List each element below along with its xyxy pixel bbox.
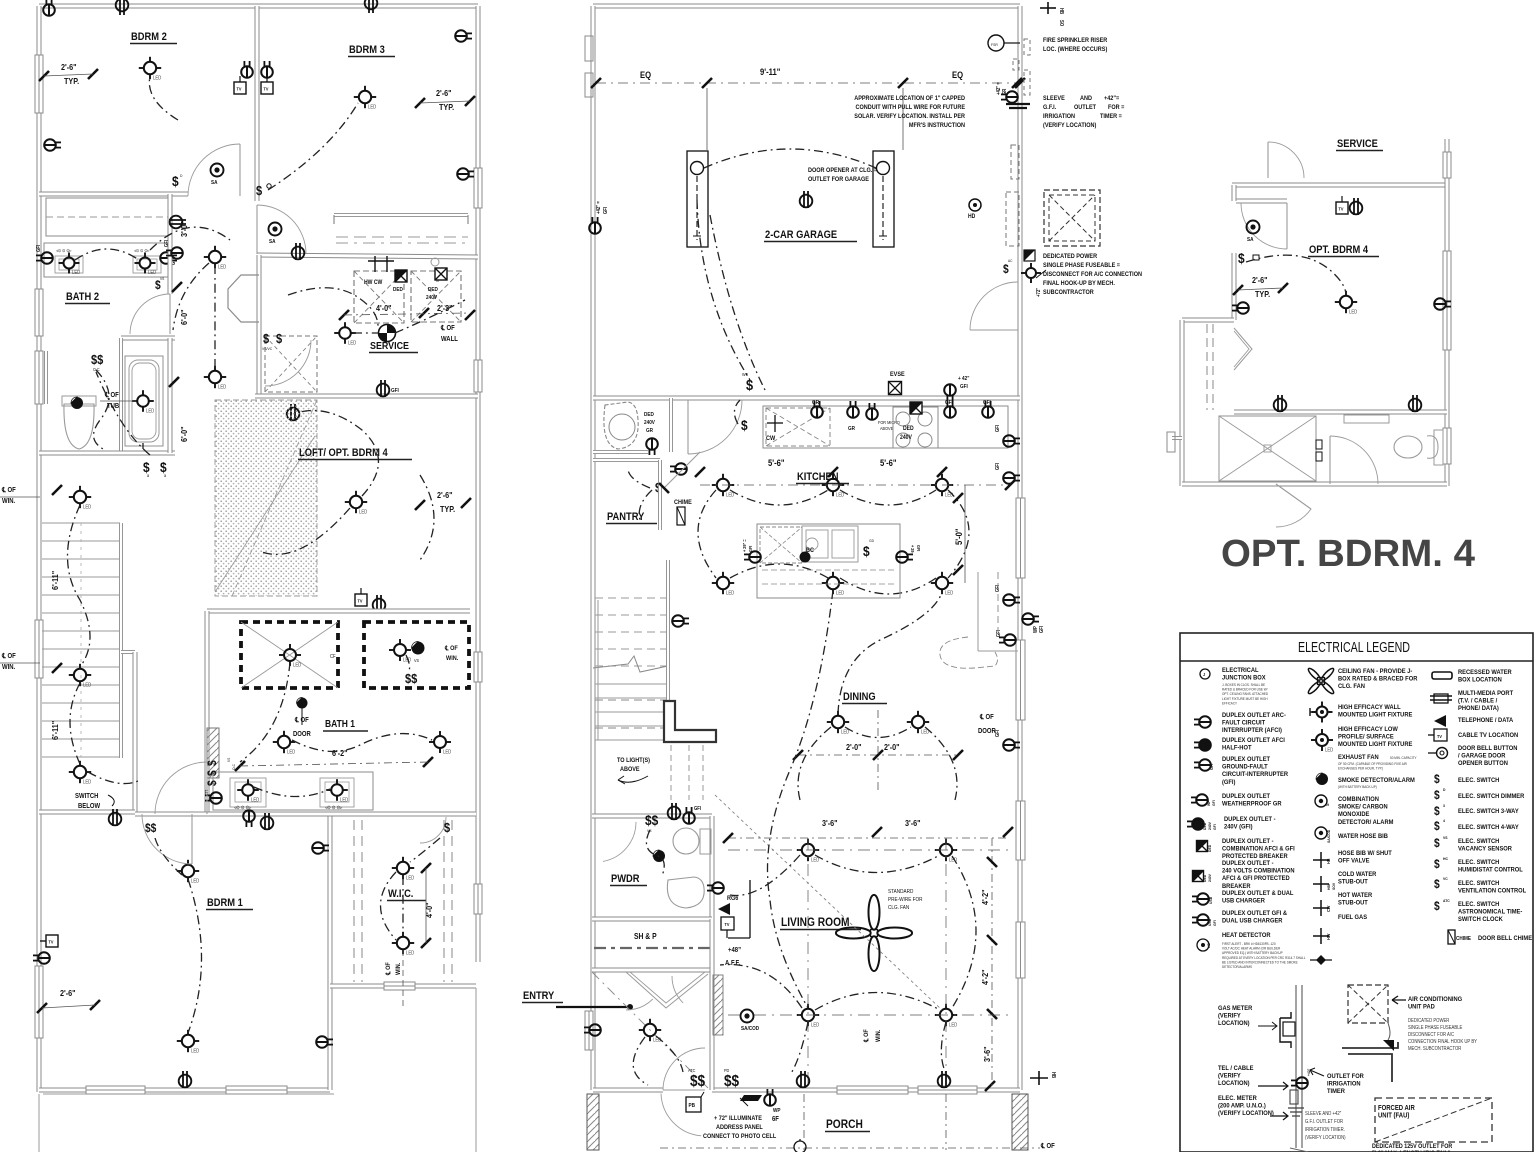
svg-text:LED: LED	[945, 590, 954, 595]
svg-text:TIMER: TIMER	[1327, 1088, 1345, 1096]
front door gap and arc	[663, 1048, 705, 1090]
svg-text:BDRM 2: BDRM 2	[131, 31, 167, 43]
recessed LED light at 440,742	[434, 736, 446, 748]
duplex outlet at 216,798	[205, 792, 222, 804]
stairs	[42, 522, 120, 524]
svg-text:EFFICACY: EFFICACY	[1222, 701, 1238, 705]
svg-text:CLG. FAN: CLG. FAN	[888, 905, 910, 911]
svg-text:2'-6": 2'-6"	[437, 490, 453, 500]
recessed LED light at 188,871	[182, 865, 194, 877]
svg-text:2-CAR GARAGE: 2-CAR GARAGE	[765, 229, 837, 241]
smoke alarm at 217,170	[211, 164, 224, 177]
svg-text:FORCED AIR: FORCED AIR	[1378, 1105, 1415, 1113]
svg-text:5'-0": 5'-0"	[953, 528, 964, 545]
svg-text:GFI: GFI	[983, 400, 991, 406]
ceiling fan at 874,933	[877, 928, 912, 939]
tub room left wall jog	[44, 351, 48, 404]
svg-text:℄ OF: ℄ OF	[385, 962, 393, 976]
recessed LED light at 215,257	[209, 251, 221, 263]
garage door track right	[873, 151, 894, 247]
tr left wall upper	[1232, 185, 1237, 201]
svg-text:$$: $$	[405, 671, 418, 686]
duplex outlet at 817,412	[811, 401, 823, 418]
recessed LED light at 356,502	[350, 496, 362, 508]
svg-text:OUTLET FOR GARAGE: OUTLET FOR GARAGE	[808, 177, 869, 183]
legend door bell button	[1437, 748, 1448, 759]
window at 1443,251	[1443, 251, 1451, 350]
svg-text:CONDUIT WITH PULL WIRE FOR FUT: CONDUIT WITH PULL WIRE FOR FUTURE	[856, 105, 965, 111]
wic door arc	[420, 817, 446, 843]
svg-text:RG6: RG6	[727, 896, 739, 902]
surface light at 185,1080	[179, 1071, 192, 1088]
pwdr toilet	[673, 828, 699, 854]
pantry door leaf	[664, 452, 700, 488]
svg-text:HD: HD	[1207, 943, 1211, 948]
svg-text:2'-0": 2'-0"	[884, 742, 900, 752]
range	[893, 407, 938, 448]
svg-text:INTERRUPTER (AFCI): INTERRUPTER (AFCI)	[1222, 727, 1282, 735]
bdrm2 hall wires	[150, 227, 230, 250]
svg-text:ATC: ATC	[1443, 899, 1450, 903]
duplex outlet at 950,412	[944, 401, 956, 418]
tr bath door	[1330, 436, 1378, 484]
svg-text:WIN.: WIN.	[396, 962, 402, 975]
svg-text:◃⊙ ⊙ ⊙▹: ◃⊙ ⊙ ⊙▹	[134, 248, 150, 253]
svg-text:ELEC. SWITCH: ELEC. SWITCH	[1458, 859, 1500, 867]
recessed LED light at 248,790	[242, 784, 254, 796]
svg-text:LED: LED	[340, 797, 349, 802]
svg-text:WALL: WALL	[441, 336, 458, 344]
garage wires	[704, 149, 876, 168]
smoke alarm at 275,229	[269, 223, 282, 236]
service bottom wall upper	[1232, 183, 1447, 188]
duplex outlet at 461,36	[455, 30, 472, 42]
svg-text:UNIT (FAU): UNIT (FAU)	[1378, 1112, 1409, 1120]
service top door arc	[1268, 142, 1304, 178]
svg-text:G.F.I.: G.F.I.	[1043, 105, 1056, 111]
svg-text:LED: LED	[83, 682, 92, 687]
svg-text:TEL / CABLE: TEL / CABLE	[1218, 1065, 1253, 1073]
svg-text:TV: TV	[1339, 206, 1344, 211]
svg-text:DUPLEX OUTLET -: DUPLEX OUTLET -	[1222, 838, 1274, 846]
bdrm3 door + hall top wall	[257, 255, 478, 257]
svg-text:GD: GD	[869, 539, 874, 543]
duplex outlet at 1009,478	[1003, 472, 1020, 484]
svg-text:STUB-OUT: STUB-OUT	[1338, 899, 1368, 907]
special outlet box at 441,274	[435, 268, 447, 280]
svg-text:CLG. FAN: CLG. FAN	[1338, 683, 1365, 691]
window at 1443,152	[1443, 152, 1451, 178]
svg-text:UNIT PAD: UNIT PAD	[1408, 1003, 1435, 1011]
recessed LED light at 1322,712	[1317, 707, 1328, 718]
svg-text:EQ: EQ	[952, 69, 964, 80]
svg-text:$$: $$	[91, 352, 104, 367]
svg-text:TV: TV	[1437, 734, 1442, 739]
entry bottom wall	[593, 1088, 663, 1093]
svg-text:DUPLEX OUTLET -: DUPLEX OUTLET -	[1222, 860, 1274, 868]
svg-text:SINGLE PHASE FUSEABLE: SINGLE PHASE FUSEABLE	[1408, 1025, 1462, 1030]
recessed LED light at 942,583	[936, 577, 948, 589]
legend recessed water box	[1432, 672, 1452, 679]
svg-text:LED: LED	[146, 408, 155, 413]
svg-text:SA: SA	[1247, 237, 1254, 243]
svg-text:TV: TV	[237, 86, 242, 91]
svg-text:$$: $$	[145, 822, 157, 835]
svg-text:DUPLEX OUTLET ARC-: DUPLEX OUTLET ARC-	[1222, 712, 1286, 720]
svg-text:SERVICE: SERVICE	[370, 340, 409, 352]
duplex outlet at 47,258	[36, 252, 53, 264]
svg-text:LED: LED	[153, 75, 162, 80]
kitchen desk return	[977, 572, 979, 651]
recessed LED light at 80,497	[74, 491, 86, 503]
tr bath bottom door leaf	[1276, 484, 1311, 509]
recessed LED light at 403,943	[397, 937, 409, 949]
duplex outlet at 718,888	[707, 882, 724, 894]
left plan exterior walls	[39, 4, 478, 9]
svg-text:$: $	[444, 820, 450, 835]
window at 918,1086	[918, 1086, 977, 1094]
legend smoke detector	[1316, 773, 1328, 785]
duplex outlet at 249,816	[243, 810, 255, 827]
svg-text:DOOR: DOOR	[293, 731, 311, 739]
legend junction box	[1200, 669, 1210, 679]
hall plumbing wall	[257, 255, 262, 396]
recessed LED light at 188,1041	[182, 1035, 194, 1047]
loft wires	[300, 410, 379, 496]
svg-text:OUTLET: OUTLET	[1074, 105, 1096, 111]
svg-text:SOV: SOV	[1332, 882, 1336, 890]
recessed LED light at 833,583	[827, 577, 839, 589]
legend heat detector	[1197, 939, 1209, 951]
svg-text:DED: DED	[1203, 823, 1207, 830]
svg-text:2'-0": 2'-0"	[846, 742, 862, 752]
duplex outlet at 1198,824	[1187, 818, 1204, 830]
svg-text:3: 3	[147, 474, 149, 478]
svg-text:LED: LED	[72, 270, 81, 275]
garage bottom wall	[593, 396, 1020, 401]
svg-text:CF: CF	[330, 654, 336, 659]
svg-text:O-C: O-C	[232, 764, 236, 770]
pb box	[686, 1097, 701, 1112]
svg-text:AC: AC	[1008, 259, 1013, 263]
TV outlet at 1342,208	[1336, 202, 1348, 214]
recessed LED light at 808,1015	[802, 1009, 814, 1021]
svg-text:ELEC. SWITCH 3-WAY: ELEC. SWITCH 3-WAY	[1458, 808, 1519, 816]
svg-text:LED: LED	[191, 878, 200, 883]
pwdr walls	[592, 814, 712, 819]
svg-text:3: 3	[1443, 804, 1445, 808]
svg-text:EQ: EQ	[640, 69, 652, 80]
svg-text:LED: LED	[218, 264, 227, 269]
legend hb	[1313, 859, 1329, 861]
svg-text:4'-2": 4'-2"	[980, 889, 990, 905]
svg-text:SA/COD: SA/COD	[741, 1026, 759, 1032]
svg-text:$$: $$	[690, 1073, 706, 1090]
legend cw	[1313, 907, 1329, 909]
garage right door arc	[970, 282, 1018, 330]
wic entry wire	[402, 876, 404, 935]
svg-text:SWITCH: SWITCH	[75, 793, 99, 801]
svg-text:TV: TV	[49, 939, 54, 944]
surface light at 371,4	[365, 0, 378, 13]
recessed LED light at 365,97	[359, 91, 371, 103]
svg-text:$: $	[206, 770, 219, 776]
duplex outlet at 770,1100	[764, 1089, 776, 1106]
legend chime	[1448, 930, 1455, 944]
svg-text:ELEC. SWITCH 4-WAY: ELEC. SWITCH 4-WAY	[1458, 824, 1519, 832]
TV outlet at 267,88	[261, 82, 273, 94]
svg-text:SMOKE/ CARBON: SMOKE/ CARBON	[1338, 803, 1388, 811]
duplex outlet at 166,258	[160, 252, 177, 264]
hose bib top right	[1040, 7, 1056, 9]
living wires	[815, 855, 940, 873]
surface light at 177,222	[169, 216, 186, 229]
svg-text:LED: LED	[293, 662, 302, 667]
duplex outlet at 872,414	[866, 403, 878, 420]
svg-text:DEDICATED POWER: DEDICATED POWER	[1043, 254, 1098, 260]
svg-text:DINING: DINING	[843, 691, 876, 703]
svg-text:GFI: GFI	[995, 585, 1000, 592]
svg-text:VS/VC: VS/VC	[262, 347, 272, 351]
tr bath bottom wall	[1182, 482, 1447, 487]
svg-text:GFI: GFI	[391, 388, 399, 394]
svg-text:℄ OF: ℄ OF	[444, 645, 458, 653]
svg-text:VACANCY SENSOR: VACANCY SENSOR	[1458, 845, 1512, 853]
svg-text:HOT WATER: HOT WATER	[1338, 892, 1373, 900]
svg-text:LED: LED	[406, 875, 415, 880]
svg-text:D: D	[1443, 788, 1446, 792]
surface light at 806,200	[800, 191, 813, 208]
HW CW pipes	[374, 256, 376, 272]
svg-text:BATH 1: BATH 1	[325, 718, 355, 729]
svg-text:2'-3": 2'-3"	[437, 303, 453, 313]
svg-text:HB/: HB/	[1327, 884, 1331, 890]
svg-text:COMBINATION AFCI & GFI: COMBINATION AFCI & GFI	[1222, 845, 1295, 853]
hb right	[1030, 1077, 1048, 1079]
svg-text:GFI: GFI	[1039, 626, 1044, 633]
svg-text:$: $	[206, 780, 219, 786]
ac disconnect symbol	[1024, 250, 1035, 261]
window at 35,620	[35, 620, 43, 678]
bdrm3 closet shelf dashes	[336, 236, 468, 238]
svg-text:℄ OF: ℄ OF	[1, 487, 16, 495]
porch dashed outline	[803, 1094, 805, 1150]
svg-text:DED: DED	[903, 426, 914, 432]
svg-text:℄ OF: ℄ OF	[1, 653, 16, 661]
svg-text:$$: $$	[724, 1073, 740, 1090]
svg-text:SLEEVE AND +42": SLEEVE AND +42"	[1305, 1111, 1342, 1116]
bath2 suite bottom wall	[39, 451, 175, 456]
duplex outlet at 1203,899	[1192, 893, 1209, 905]
svg-text:TV: TV	[725, 922, 730, 927]
svg-text:LOC. (WHERE OCCURS): LOC. (WHERE OCCURS)	[1043, 47, 1107, 53]
tr left wall mid	[1232, 253, 1237, 320]
svg-text:240 VOLTS COMBINATION: 240 VOLTS COMBINATION	[1222, 867, 1295, 875]
svg-text:$: $	[1434, 900, 1440, 913]
svg-text:(VERIFY LOCATION): (VERIFY LOCATION)	[1043, 123, 1096, 129]
svg-text:3'-6": 3'-6"	[982, 1046, 992, 1062]
svg-text:$: $	[741, 417, 748, 433]
svg-text:IRRIGATION: IRRIGATION	[1327, 1080, 1361, 1088]
svg-text:VS: VS	[227, 757, 231, 762]
recessed LED light at 723,485	[717, 479, 729, 491]
svg-text:PWDR: PWDR	[611, 873, 640, 885]
svg-text:6F: 6F	[772, 1116, 779, 1124]
living room bottom wall	[712, 1088, 1020, 1093]
svg-text:OPT. BDRM 4: OPT. BDRM 4	[1309, 244, 1368, 256]
duplex outlet at 988,412	[982, 401, 994, 418]
kitchen counter top	[763, 406, 1008, 448]
surface light at 115,818	[109, 809, 122, 826]
svg-text:GFI: GFI	[1213, 824, 1217, 830]
TV outlet at 52,941	[46, 935, 58, 947]
svg-text:LED: LED	[83, 504, 92, 509]
recessed LED light at 723,583	[717, 577, 729, 589]
surface light at 267,822	[261, 813, 274, 830]
duplex outlet at 1009,745	[1003, 739, 1020, 751]
pantry walls	[593, 458, 660, 462]
garage dim line EQ 9-11 EQ	[596, 82, 1020, 84]
island dashes	[762, 569, 895, 571]
surface light at 1356,207	[1350, 198, 1363, 215]
svg-text:STANDARD: STANDARD	[888, 889, 914, 895]
svg-text:LED: LED	[1325, 747, 1334, 752]
svg-text:$: $	[746, 376, 753, 393]
bdrm4 bottom wall	[1234, 410, 1447, 415]
svg-text:ABOVE: ABOVE	[880, 426, 893, 431]
duplex outlet at 1203,920	[1192, 914, 1209, 926]
duplex outlet at 177,253	[166, 247, 183, 259]
svg-text:EVSE: EVSE	[890, 372, 905, 378]
stairs	[595, 683, 666, 685]
svg-text:JUNCTION BOX: JUNCTION BOX	[1222, 674, 1266, 682]
bath1 vanity	[213, 772, 373, 810]
recessed LED light at 946,850	[940, 844, 952, 856]
window at 837,1086	[837, 1086, 908, 1094]
duplex outlet at 1205,745	[1194, 739, 1211, 751]
surface light at 1280,404	[1274, 395, 1287, 412]
svg-text:(VERIFY: (VERIFY	[1218, 1072, 1241, 1080]
recessed LED light at 145,263	[140, 258, 151, 269]
bdrm3 closet top wall	[334, 213, 468, 217]
svg-text:TYP.: TYP.	[64, 76, 79, 86]
svg-text:℄ OF: ℄ OF	[294, 717, 309, 725]
svg-text:(200 AMP. U.N.O.): (200 AMP. U.N.O.)	[1218, 1102, 1266, 1110]
svg-text:RECESSED WATER: RECESSED WATER	[1458, 669, 1512, 677]
svg-text:DOOR BELL BUTTON: DOOR BELL BUTTON	[1458, 745, 1518, 753]
svg-text:ELECTRICAL: ELECTRICAL	[1222, 667, 1259, 675]
svg-text:$: $	[1434, 837, 1440, 850]
wire between vanity lights	[75, 249, 139, 260]
svg-text:$: $	[863, 543, 870, 559]
svg-text:DETECTOR/ALARMS: DETECTOR/ALARMS	[1222, 965, 1253, 969]
tr closet bifold	[1234, 328, 1252, 370]
svg-text:GFI: GFI	[603, 207, 608, 214]
svg-text:FSR: FSR	[991, 43, 998, 47]
middle plan exterior walls	[593, 4, 1020, 9]
svg-text:S: S	[1325, 803, 1330, 806]
recessed LED light at 284,742	[278, 736, 290, 748]
svg-text:ASTRONOMICAL TIME-: ASTRONOMICAL TIME-	[1458, 908, 1522, 916]
svg-text:240V: 240V	[1208, 822, 1212, 830]
svg-text:BDRM 3: BDRM 3	[349, 44, 385, 56]
svg-text:$: $	[172, 173, 179, 189]
svg-text:SERVICE: SERVICE	[1337, 138, 1378, 150]
recessed LED light at 69,263	[64, 258, 75, 269]
forced air unit	[1375, 1098, 1492, 1142]
bdrm3 wire	[268, 103, 358, 190]
duplex outlet at 1009,600	[1003, 594, 1020, 606]
stair break zigzag	[593, 656, 668, 672]
surface light at 379,604	[373, 595, 386, 612]
svg-text:5'-6": 5'-6"	[880, 457, 897, 468]
window at 474,360	[474, 360, 482, 392]
duplex outlet at 1028,619	[1022, 613, 1039, 625]
svg-text:VS: VS	[414, 658, 419, 663]
svg-text:$: $	[155, 279, 161, 292]
wall below pwdr to entry	[710, 919, 715, 1090]
garage door track left	[687, 151, 708, 247]
svg-text:BATH 2: BATH 2	[66, 291, 99, 303]
svg-text:LED: LED	[218, 384, 227, 389]
duplex outlet at 652,444	[646, 438, 658, 455]
svg-text:APPROXIMATE LOCATION OF 1" CAP: APPROXIMATE LOCATION OF 1" CAPPED	[854, 96, 965, 102]
svg-text:SH & P: SH & P	[634, 931, 657, 941]
svg-text:LED: LED	[836, 590, 845, 595]
svg-text:6'-2": 6'-2"	[332, 748, 348, 758]
svg-text:CHIME: CHIME	[1456, 936, 1472, 942]
svg-text:TELEPHONE / DATA: TELEPHONE / DATA	[1458, 717, 1514, 725]
legend combo smoke cm	[1315, 795, 1327, 807]
recessed LED light at 942,485	[936, 479, 948, 491]
bath1 right bold dashed closet	[364, 622, 469, 688]
svg-text:DUPLEX OUTLET -: DUPLEX OUTLET -	[1224, 816, 1276, 824]
svg-text:STUB-OUT: STUB-OUT	[1338, 878, 1368, 886]
toilet bath2	[64, 404, 94, 449]
svg-text:SLEEVE: SLEEVE	[1043, 96, 1065, 102]
recessed LED light at 337,790	[331, 784, 343, 796]
svg-text:BOX LOCATION: BOX LOCATION	[1458, 676, 1502, 684]
svg-text:LED: LED	[368, 104, 377, 109]
bdrm2 south wall	[39, 192, 188, 197]
svg-text:$: $	[256, 183, 262, 198]
svg-text:USB: USB	[1209, 897, 1213, 904]
svg-text:EXCHANGES PER HOUR, TYP.): EXCHANGES PER HOUR, TYP.)	[1338, 766, 1383, 770]
stair inner rail	[597, 600, 599, 740]
porch door arc	[661, 1094, 701, 1136]
svg-text:ENTRY: ENTRY	[523, 990, 554, 1002]
svg-text:WIN.: WIN.	[876, 1029, 882, 1042]
svg-text:240V: 240V	[644, 420, 655, 426]
bath2 right wall	[168, 194, 173, 294]
legend sacod symbol	[1315, 827, 1327, 839]
ac corner wall	[1342, 1042, 1398, 1048]
duplex outlet at 681,469	[670, 463, 687, 475]
svg-text:SOLAR. VERIFY LOCATION. INSTAL: SOLAR. VERIFY LOCATION. INSTALL PER	[854, 114, 965, 120]
svg-text:6'-0": 6'-0"	[179, 309, 189, 325]
svg-text:$: $	[206, 760, 219, 766]
svg-text:MOUNTED LIGHT FIXTURE: MOUNTED LIGHT FIXTURE	[1338, 741, 1412, 749]
window at 35,351	[35, 351, 43, 404]
svg-text:4'-2": 4'-2"	[980, 969, 990, 985]
smoke alarm at 747,1016	[741, 1010, 754, 1023]
recessed LED light at 400,650	[394, 644, 406, 656]
loft dotted strip	[215, 400, 317, 596]
garage HD	[969, 199, 981, 211]
porch piers hatched	[587, 1094, 599, 1150]
special outlet box at 916,408	[910, 402, 922, 414]
svg-text:3'-6": 3'-6"	[822, 818, 838, 828]
